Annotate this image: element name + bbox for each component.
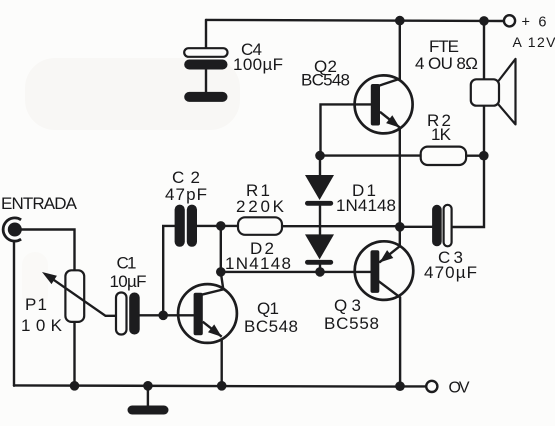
junction P1 bottom rail <box>70 381 80 391</box>
wire Q1 collector lead <box>203 272 224 294</box>
junction C2/R1 <box>216 221 226 231</box>
capacitor C4 <box>184 48 227 69</box>
wire input to P1 top <box>21 230 75 271</box>
wire R1 feedback run <box>197 225 400 228</box>
wire C4 top stem <box>205 20 207 49</box>
svg-text:4 OU 8Ω: 4 OU 8Ω <box>415 54 478 73</box>
capacitor C2 <box>175 205 197 247</box>
wire 0V stub to terminal <box>400 385 426 387</box>
junction Q1 collector <box>216 267 226 277</box>
junction output node <box>395 222 405 232</box>
input jack ENTRADA <box>3 218 22 241</box>
wire C4 bottom stem to ground <box>205 69 207 92</box>
speaker FTE <box>471 59 516 125</box>
svg-text:Q1: Q1 <box>257 299 279 318</box>
svg-text:1N4148: 1N4148 <box>336 196 396 215</box>
junction ground stub <box>143 381 153 391</box>
svg-text:BC548: BC548 <box>301 71 350 90</box>
svg-text:10µF: 10µF <box>110 272 147 291</box>
wire speaker bottom to R2 node <box>483 106 485 156</box>
svg-text:P1: P1 <box>25 295 47 314</box>
diode D1 <box>305 175 334 206</box>
wire bottom 0V rail <box>14 385 400 386</box>
scan smudge top-left <box>25 58 240 130</box>
svg-text:470µF: 470µF <box>424 263 477 282</box>
junction Q1 emitter rail <box>217 381 227 391</box>
potentiometer P1 <box>42 270 116 322</box>
scan smudge left <box>22 252 48 308</box>
wire input jack ground drop <box>13 241 15 386</box>
junction top rail Q2 <box>395 16 405 26</box>
wire Q3 collector drop <box>378 281 400 387</box>
svg-text:ENTRADA: ENTRADA <box>1 194 78 213</box>
svg-text:1N4148: 1N4148 <box>225 254 291 273</box>
transistor Q3 <box>355 241 414 300</box>
wire diode-top to R2 <box>320 154 421 156</box>
junction diode top / Q2 base <box>315 151 325 161</box>
svg-text:C1: C1 <box>117 254 137 273</box>
wire Q1 emitter drop <box>220 340 222 386</box>
wire P1 bottom drop <box>73 322 75 386</box>
junction R2 speaker node <box>479 151 489 161</box>
terminal 0V <box>426 381 437 392</box>
wire Q2 collector riser <box>380 21 400 86</box>
resistor R2 <box>421 147 466 165</box>
wire C2 left riser <box>163 226 174 315</box>
resistor R1 <box>238 217 282 235</box>
wire Q3 emitter riser <box>380 227 400 262</box>
svg-text:100µF: 100µF <box>233 55 283 74</box>
wire ground stub bottom <box>147 386 149 406</box>
transistor Q1 <box>178 284 237 343</box>
wire diode chain segments <box>319 156 321 272</box>
wire speaker node down to C3 right <box>452 156 484 227</box>
svg-text:1K: 1K <box>431 125 452 144</box>
junction top rail speaker <box>479 16 489 26</box>
junction 0V node <box>395 381 405 391</box>
svg-text:OV: OV <box>449 380 470 397</box>
terminal +6 <box>504 15 515 26</box>
svg-text:220K: 220K <box>236 197 285 216</box>
svg-text:+ 6: + 6 <box>522 15 547 31</box>
capacitor C3 <box>432 205 452 247</box>
capacitor C1 <box>116 293 140 335</box>
ground (C4) <box>184 92 227 102</box>
svg-text:10K: 10K <box>21 316 63 335</box>
wire Q2 emitter drop <box>399 128 401 227</box>
svg-text:BC558: BC558 <box>324 314 379 333</box>
transistor Q2 <box>355 75 413 133</box>
ground (bottom) <box>128 406 169 415</box>
wire C2R1 node down to Q1 collector wire <box>220 226 222 272</box>
wire speaker top riser <box>483 21 485 79</box>
junction D2 anode <box>315 267 325 277</box>
wire R2 right to speaker node <box>466 154 484 156</box>
svg-text:BC548: BC548 <box>244 317 298 336</box>
svg-text:A 12V: A 12V <box>513 34 555 50</box>
junction Q1 base / C2 <box>158 311 168 321</box>
wire Q1 base horizontal <box>140 314 194 316</box>
svg-text:47pF: 47pF <box>165 185 207 204</box>
wire Q2 base horizontal <box>321 104 371 155</box>
wire Q1 collector bottom run to Q3 base <box>221 271 371 273</box>
wire top supply rail <box>206 20 504 21</box>
diode D2 <box>305 234 334 264</box>
wire node5 to C3 left <box>400 226 432 228</box>
